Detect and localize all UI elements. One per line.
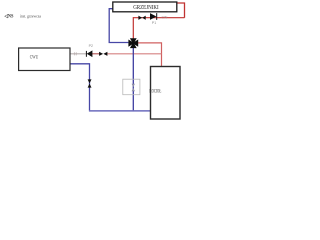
4-way mixing valve [128, 38, 138, 48]
svg-text:CWU: CWU [30, 55, 39, 61]
wire: red supply GRZEJNIKI right to riser [177, 3, 185, 18]
flange marks near CWU [74, 52, 76, 55]
wire: pink from valve right, down to boiler top [138, 43, 162, 67]
valve (bowtie) on CWU supply [99, 52, 107, 56]
CWU box [19, 48, 70, 71]
wire: blue bottom header to boiler [89, 110, 151, 112]
svg-text:KOCIOŁ: KOCIOŁ [149, 89, 161, 94]
pump P1 [150, 13, 157, 20]
valve V1 (bowtie) on pump line [138, 16, 145, 20]
svg-text:CW: CW [162, 16, 168, 20]
svg-text:P1: P1 [152, 21, 156, 25]
component box (small grey, on blue drop) [123, 79, 140, 95]
wire: red pump line P1 [133, 17, 184, 19]
GRZEJNIKI box [113, 2, 177, 12]
wire: pink CWU supply line [107, 53, 162, 55]
svg-text:P2: P2 [89, 44, 93, 48]
wire: blue return from GRZEJNIKI left to mixing valve [109, 9, 128, 43]
check valve inside grey box [132, 84, 135, 91]
svg-text:GRZEJNIKI: GRZEJNIKI [133, 5, 159, 11]
wire: red drop to mixing valve top [132, 17, 134, 38]
svg-text:◁NS: ◁NS [4, 14, 14, 20]
wire: blue CWU return to bottom line [70, 64, 90, 111]
KOCIOL box [151, 67, 181, 120]
valve (bowtie) on vertical CWU return [88, 79, 92, 87]
wire: grey stub CWU box to pump P2 [70, 53, 87, 55]
title text small left [4, 13, 41, 19]
svg-text:inst. grzewcza: inst. grzewcza [20, 13, 41, 18]
wire: blue drop below valve to bottom line [132, 47, 134, 111]
pump P2 (points left) [86, 50, 93, 57]
